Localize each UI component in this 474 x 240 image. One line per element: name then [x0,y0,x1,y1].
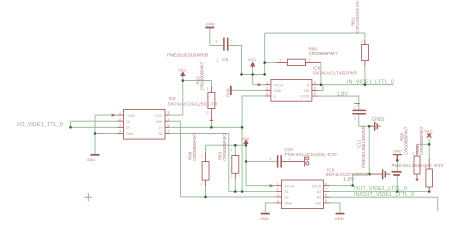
wire A2 row to IC9 [180,196,275,198]
gnd symbol under IC9 right [336,213,345,215]
svg-text:IC6: IC6 [169,96,177,101]
wire VCCA row IC8 [253,84,265,86]
gnd symbol top (C9) [205,27,214,29]
svg-text:GND: GND [393,149,402,154]
junction R60 tap [263,61,266,64]
wire VCCB 1.8V run [318,96,359,110]
svg-text:1: 1 [266,81,268,85]
svg-text:1: 1 [412,152,414,156]
wire y145 pullup rail left [206,145,247,152]
junction R60 drop on B net [320,83,323,86]
svg-text:1: 1 [231,148,233,152]
origin cross [84,193,92,201]
IC6 pin stubs [118,115,170,133]
wire R61 drop top [364,33,366,40]
svg-text:2: 2 [392,169,394,173]
wire to 1A [71,120,118,122]
wire IC8 A stub jog [242,95,265,97]
junction VCC at R62 tap [182,79,185,82]
svg-text:C9: C9 [222,57,228,62]
svg-text:7: 7 [168,117,170,121]
wire 1Y row [170,126,243,128]
wire VCC vertical x182.8 [182,77,184,115]
svg-text:SN74LVC2T45DCUR: SN74LVC2T45DCUR [326,172,371,177]
junction VCC right rail [428,143,431,146]
IC8 pin stubs [265,85,318,96]
svg-text:2: 2 [119,117,121,121]
svg-text:1: 1 [270,157,272,161]
svg-text:1.8V: 1.8V [343,177,355,183]
wire IC6 GND row [95,132,118,134]
wire R62 top rail [183,81,212,87]
resistor R62 [208,92,215,108]
svg-text:PME261JB6100K-R30: PME261JB6100K-R30 [392,163,444,168]
gnd symbol rotated at IC8 GND [230,86,232,95]
svg-text:VCCB: VCCB [312,184,322,188]
vcc symbol x252.7 [251,62,255,67]
svg-text:CRG0805P4K7: CRG0805P4K7 [200,61,205,90]
svg-text:GND: GND [274,89,282,93]
svg-text:1: 1 [207,87,209,91]
pin arrow IC6 1OE [112,114,115,116]
resistor R61 [362,45,369,61]
wire IC6 VCC to vert [170,114,183,116]
resistor R63 [232,156,239,174]
junction R63 top on pullup rail [234,144,237,147]
jumper JP bar and pads [304,156,306,166]
wire R62 bottom to 1Y row [210,121,212,127]
wire vertical x228.8 [228,133,230,191]
junction IC9 VCCB pin [351,184,354,187]
svg-text:GND: GND [260,216,269,221]
svg-text:2: 2 [308,59,310,63]
IC8 box [271,80,312,102]
gnd symbol left of IC6 [91,154,100,156]
gnd symbol under IC9 left [261,213,270,215]
wire R63 top pin drop [234,145,236,155]
svg-text:PME261JB6100KR30: PME261JB6100KR30 [361,125,366,168]
svg-text:3: 3 [277,193,279,197]
svg-text:2: 2 [231,175,233,179]
svg-text:1A: 1A [126,120,131,124]
svg-text:DIR: DIR [304,89,310,93]
wire vertical x242.1 A net [241,96,243,192]
resistor R65 [414,156,420,174]
wire IC8 GND row [231,89,265,91]
svg-text:1: 1 [361,39,363,43]
junction GND pin at C13 [396,159,399,162]
junction R63 bottom on A1 net [234,190,237,193]
svg-text:4: 4 [119,130,121,134]
R60 pins [276,62,321,64]
svg-text:1: 1 [217,59,219,63]
wire 2A row y133.4 [170,132,229,134]
IC6 pin names left [126,83,322,205]
capacitor C13 plates horizontal [392,172,402,175]
svg-text:2: 2 [266,86,268,90]
svg-text:1: 1 [354,105,356,109]
junction IC6 GND net [94,132,97,135]
wire C13 top pin [396,160,398,171]
IC9 box [282,180,324,209]
svg-text:GND: GND [206,22,215,27]
svg-text:1: 1 [119,111,121,115]
svg-text:2: 2 [201,182,203,186]
IC6 pin numbers [119,39,427,203]
capacitor C11 plates [383,169,386,179]
C12 pin tick [354,103,360,105]
svg-text:VCCA: VCCA [285,184,295,188]
wire IC9 dir gnd drop right [330,203,340,212]
svg-text:2: 2 [215,40,217,44]
junction 1.8V net at C12 bottom [368,125,371,128]
svg-text:2: 2 [289,157,291,161]
svg-text:SN74LVC1T45DPKR: SN74LVC1T45DPKR [313,70,358,75]
resistor R60 [287,59,305,65]
svg-text:C12: C12 [357,139,362,148]
svg-text:6: 6 [325,193,327,197]
wire top rail y33.1 [265,32,365,34]
svg-text:3: 3 [266,92,268,96]
wire ~2OE to vertical [170,121,181,197]
svg-text:2: 2 [277,188,279,192]
junction A net at A1 row [241,190,244,193]
svg-text:IN_VIDE1_LTTL_0: IN_VIDE1_LTTL_0 [347,80,394,86]
resistor R66 [426,169,433,187]
svg-text:4: 4 [314,81,316,85]
C11 pins [370,173,391,175]
svg-text:VCC: VCC [241,136,250,141]
wire cap12 bottom jog [359,114,369,126]
svg-text:VCC: VCC [155,114,163,118]
svg-text:2Y: 2Y [126,126,131,130]
svg-text:SN74LVC2G125DCTR: SN74LVC2G125DCTR [168,102,218,107]
svg-text:1Y: 1Y [158,126,163,130]
svg-text:8: 8 [325,182,327,186]
wire I/O label net vertical [70,121,72,127]
svg-text:5: 5 [325,199,327,203]
wire B1 row out [330,191,430,193]
svg-text:6: 6 [168,123,170,127]
wire top rail vertical x264.7 [264,33,266,74]
pin arrow IC8 VCCA [258,84,261,86]
R64 pins [205,152,207,186]
wire VCC rail y74.4 [242,73,265,75]
svg-text:GND: GND [285,202,293,206]
svg-text:GND: GND [225,88,230,97]
wire R64 bottom [205,186,207,197]
R62 pins [210,87,214,122]
svg-text:4: 4 [277,199,279,203]
svg-text:VCC: VCC [248,57,257,62]
wire vcc pullup rail right [417,143,429,145]
svg-text:2: 2 [354,117,356,121]
junction VCC rail at vertical [263,73,266,76]
junction I/O label net [69,126,72,129]
wire C9 right to rail [228,46,241,75]
R66 pins [428,159,430,192]
vcc symbol x246 [244,140,248,145]
wire top gnd cap C9 drop [210,28,223,45]
svg-text:2: 2 [207,111,209,115]
gnd symbol rotated180 right [393,155,402,160]
svg-text:7: 7 [325,188,327,192]
svg-text:I/O_VIDE1_TTL_0: I/O_VIDE1_TTL_0 [17,122,63,128]
wires-green group [71,28,438,212]
junction VCC drop at rail [245,144,248,147]
red symbol outlines [91,28,433,214]
pin arrow IC9 VCCA [270,185,273,187]
wire VCCA row IC9 [246,185,276,187]
svg-text:1: 1 [201,154,203,158]
svg-text:CRG0805P4K7: CRG0805P4K7 [309,51,339,56]
svg-text:5: 5 [168,130,170,134]
svg-text:VCCA: VCCA [274,83,284,87]
svg-text:VCC: VCC [424,129,433,134]
svg-text:PME261JC6100KR30: PME261JC6100KR30 [167,53,209,58]
wire IC9 VCCB jog up [330,174,353,186]
svg-text:1: 1 [280,59,282,63]
svg-text:B1: B1 [317,190,321,194]
wire 1OE from gnd vertical [95,114,118,116]
svg-text:8: 8 [168,111,170,115]
wire C10 feed [246,160,277,162]
C10 pins [282,160,305,162]
junction R61 on B net [364,83,367,86]
svg-text:IN/OUT_VIDE1_LTTL_0: IN/OUT_VIDE1_LTTL_0 [354,192,414,198]
wire B2 row inout [330,197,438,211]
svg-text:CRG0805F4K7: CRG0805F4K7 [404,126,409,155]
svg-text:B2: B2 [317,196,321,200]
svg-text:VCCB: VCCB [300,95,310,99]
svg-text:1: 1 [425,165,427,169]
wire A1 row to IC9 [229,191,276,193]
R61 pins [364,40,366,66]
wire DIR jog [318,85,323,91]
wire R61 bottom to B [364,66,366,85]
wire VCC drop x429.2 [428,139,430,159]
junction C10 tap [245,160,248,163]
junction VCC symbol at rail [251,73,254,76]
wire IC9 gnd drop left [265,203,275,212]
svg-text:DIR: DIR [315,202,321,206]
wire B row net [318,84,394,86]
vcc symbol x182 [181,72,185,77]
svg-text:OUT_VIDE1_LTTL_0: OUT_VIDE1_LTTL_0 [354,186,407,192]
svg-text:1: 1 [277,182,279,186]
junction R62 bottom on 1Y net [210,126,213,129]
svg-text:~1OE: ~1OE [126,114,136,118]
junction R64 bottom on A2 net [204,196,207,199]
wire VCC drop x246 [245,140,247,186]
wire to C11 [353,173,370,175]
wire 1.8V net drop to C11 row [368,126,370,174]
resistor R64 [202,162,209,181]
svg-text:A2: A2 [285,196,289,200]
svg-text:CRG0805F4K7: CRG0805F4K7 [355,0,360,33]
junction R66 on B1 net [428,190,431,193]
capacitor C9 plates [224,38,228,51]
IC9 pin stubs [276,186,330,203]
svg-text:~2OE: ~2OE [154,120,164,124]
svg-text:PME261JC6100K-R30: PME261JC6100K-R30 [285,152,338,157]
svg-text:GND: GND [86,157,95,162]
junction A net at 1Y row [241,126,244,129]
wire R60 pin2 drop [320,63,322,85]
wire VCC symbol drop x252.7 [252,68,254,85]
svg-text:3: 3 [119,123,121,127]
svg-text:1.8V: 1.8V [337,92,349,98]
wire C13 bottom pin [396,175,398,191]
R63 pins [234,173,236,179]
wire R63 bottom [234,179,236,191]
svg-text:CRG0805P4K7: CRG0805P4K7 [192,132,197,161]
op IC6 box [124,109,166,139]
svg-text:1: 1 [231,40,233,44]
svg-text:CRG0805F4K7: CRG0805F4K7 [222,132,227,161]
wire gnd vertical left of IC6 [94,115,96,154]
wire to 2Y [71,126,118,128]
small capacitor C14 rotated [375,122,378,131]
svg-text:6: 6 [314,92,316,96]
svg-text:VCC: VCC [178,67,187,72]
svg-text:GND: GND [372,117,384,123]
wire R60 pin1 branch [265,62,277,64]
svg-text:A1: A1 [285,190,289,194]
capacitor C10 plates [278,155,282,168]
R65 pins [416,144,419,180]
svg-text:2A: 2A [158,132,163,136]
svg-text:5: 5 [314,86,316,90]
junction C9 at VCC rail [240,73,243,76]
capacitor C12 plates horizontal [352,110,366,113]
svg-text:CRG0805F4K7: CRG0805F4K7 [419,126,424,155]
vcc symbol x428.2 [427,133,431,138]
svg-text:GND: GND [335,216,344,221]
svg-text:GND: GND [126,132,134,136]
